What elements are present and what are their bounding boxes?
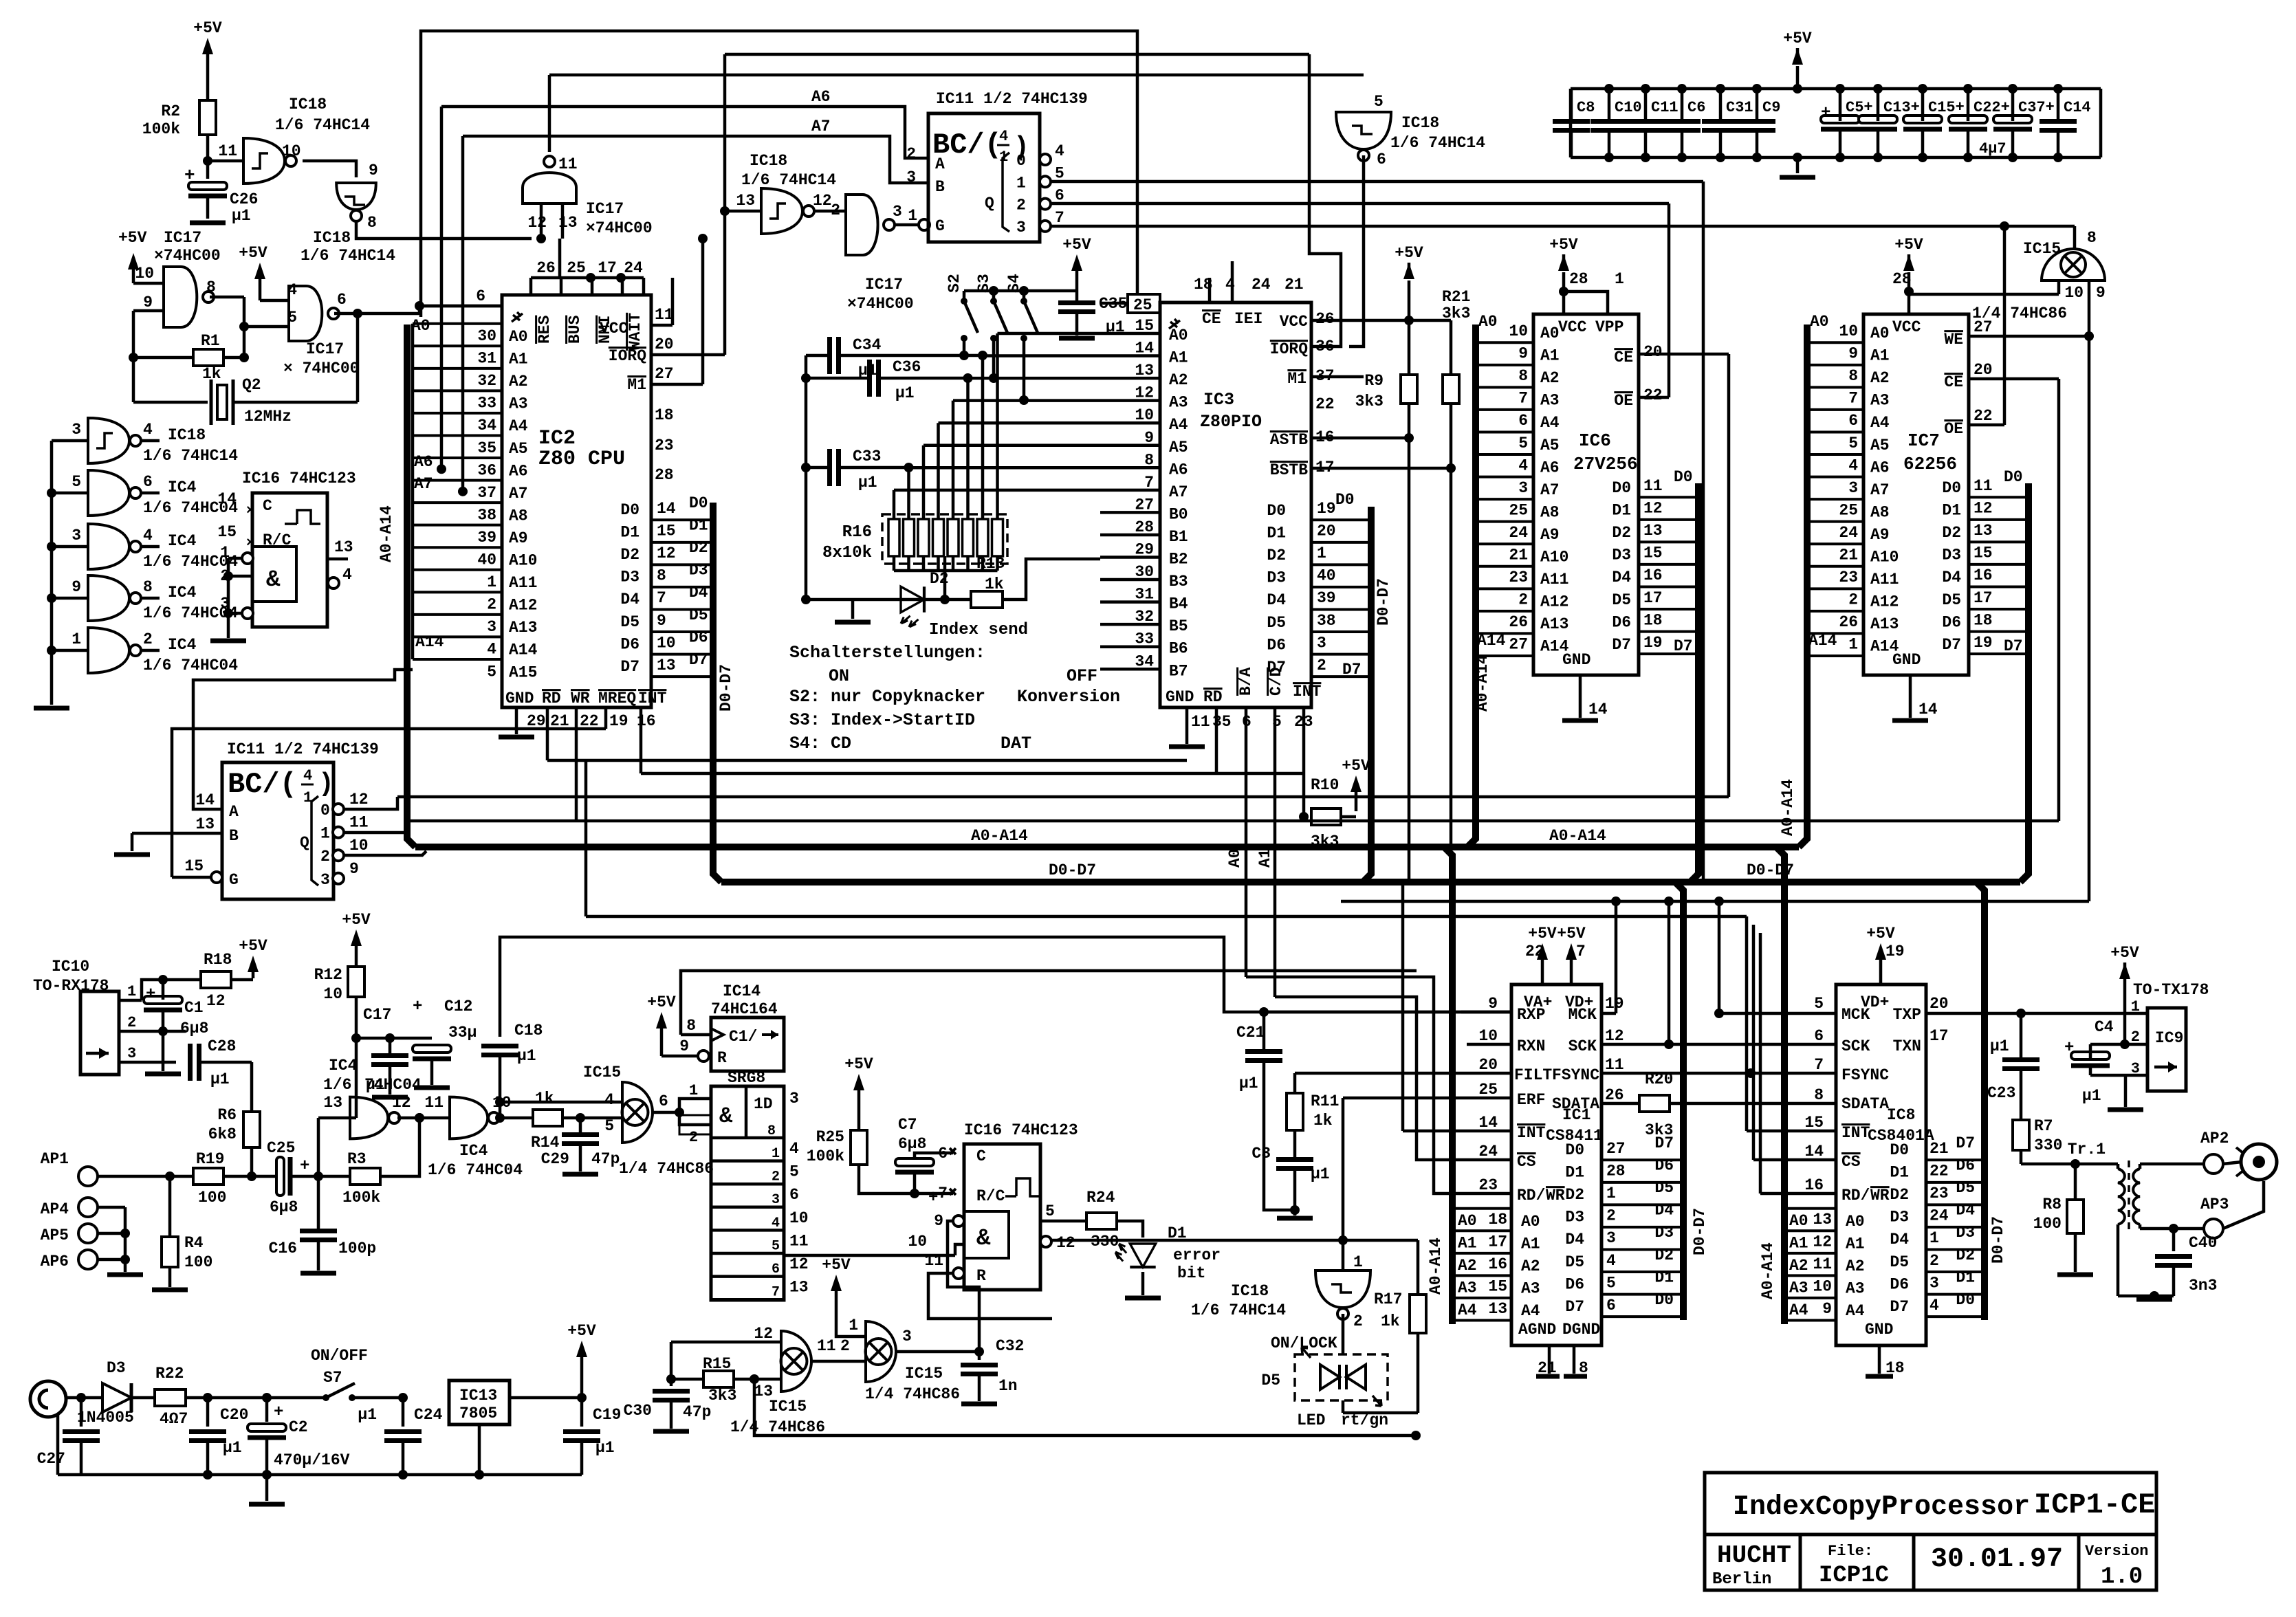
svg-text:11: 11	[349, 814, 369, 832]
svg-text:D2: D2	[1956, 1246, 1975, 1264]
svg-text:OE: OE	[1944, 420, 1963, 438]
svg-text:18: 18	[1974, 611, 1993, 629]
svg-text:20: 20	[1974, 361, 1993, 379]
svg-text:17: 17	[1488, 1233, 1507, 1251]
svg-text:+5V: +5V	[567, 1322, 596, 1340]
svg-text:A8: A8	[509, 507, 528, 525]
PIO pin 25 box	[1100, 294, 1160, 314]
svg-text:8: 8	[2087, 229, 2097, 247]
IC6 GND pin 14	[1562, 651, 1608, 720]
svg-text:12: 12	[392, 1094, 411, 1112]
svg-text:1/4 74HC86: 1/4 74HC86	[730, 1418, 825, 1436]
PIO pencil mark	[1169, 319, 1180, 329]
svg-text:CE: CE	[1944, 373, 1963, 391]
ON/LOCK label	[1271, 1334, 1337, 1352]
svg-text:1: 1	[127, 983, 136, 1000]
svg-text:TO-TX178: TO-TX178	[2133, 981, 2209, 999]
svg-text:3: 3	[2131, 1060, 2140, 1077]
svg-text:11: 11	[1974, 477, 1993, 495]
svg-text:+5V: +5V	[1342, 757, 1370, 775]
svg-text:100k: 100k	[342, 1189, 380, 1207]
svg-text:C10: C10	[1615, 99, 1642, 116]
resistor R3 100k	[318, 1113, 424, 1207]
svg-text:16: 16	[1488, 1255, 1507, 1273]
svg-text:4: 4	[143, 421, 153, 439]
svg-text:23: 23	[1478, 1176, 1498, 1194]
XOR IC15 1/4 74HC86 pins 8,10 -> 9	[1909, 229, 2106, 901]
svg-text:Q: Q	[300, 834, 309, 852]
svg-text:27V256: 27V256	[1573, 454, 1638, 474]
svg-text:12: 12	[754, 1325, 773, 1343]
svg-text:D0-D7: D0-D7	[717, 664, 735, 712]
svg-text:+5V: +5V	[1557, 925, 1586, 943]
svg-text:15: 15	[1804, 1114, 1824, 1132]
svg-text:A7: A7	[414, 475, 433, 493]
svg-text:AP1: AP1	[41, 1150, 69, 1168]
svg-text:C24: C24	[414, 1406, 443, 1424]
svg-text:A4: A4	[1521, 1302, 1540, 1320]
svg-text:R19: R19	[196, 1150, 224, 1168]
svg-text:14: 14	[1478, 1114, 1498, 1132]
svg-text:4: 4	[604, 1091, 614, 1109]
title version	[2085, 1543, 2148, 1590]
bus tags A0 A6 A7 A14 at Z80	[411, 317, 444, 651]
svg-text:C37+: C37+	[2018, 99, 2055, 116]
svg-text:D5: D5	[1942, 591, 1961, 609]
capacitor C37	[1993, 84, 2055, 162]
capacitor C24 u1	[358, 1398, 442, 1479]
resistor R15 3k3	[666, 1355, 781, 1405]
svg-text:+: +	[300, 1157, 309, 1176]
IC3 Z80PIO label	[1200, 390, 1262, 432]
capacitor C4 u1	[2064, 1018, 2147, 1105]
bus IC1 A branch	[1444, 847, 1452, 1324]
svg-text:IC15: IC15	[769, 1398, 807, 1416]
XOR IC15 pins 12,13 -> 11	[730, 1325, 866, 1436]
inverter IC18 pins 5-6 (down)	[1336, 93, 1485, 168]
svg-text:CE: CE	[1202, 310, 1221, 328]
svg-text:+5V: +5V	[2110, 944, 2139, 962]
svg-text:D1: D1	[689, 517, 708, 535]
svg-text:D3: D3	[1267, 569, 1286, 587]
svg-text:27: 27	[1606, 1140, 1626, 1158]
svg-text:AP6: AP6	[41, 1253, 69, 1270]
svg-text:A1: A1	[1458, 1235, 1477, 1253]
svg-text:5: 5	[1045, 1202, 1055, 1220]
svg-text:8: 8	[206, 278, 216, 296]
svg-text:ICP1-CE: ICP1-CE	[2034, 1488, 2155, 1521]
svg-text:1: 1	[1353, 1253, 1363, 1271]
svg-text:µ1: µ1	[2082, 1087, 2101, 1105]
svg-text:D1: D1	[1267, 525, 1286, 542]
NAND IC17 pins 12,13 -> 11 (up)	[523, 155, 653, 243]
wire R13 to PIO B ladder	[1003, 559, 1100, 599]
svg-text:14: 14	[657, 500, 676, 518]
svg-text:11: 11	[1643, 477, 1663, 495]
svg-text:IC4: IC4	[168, 636, 197, 654]
svg-text:+5V: +5V	[1395, 244, 1423, 262]
IC7 GND pin 14	[1892, 651, 1938, 720]
svg-text:D0-D7: D0-D7	[1049, 861, 1096, 879]
wire IC14 pin8 from top	[681, 971, 1417, 1035]
svg-text:INT: INT	[1517, 1124, 1546, 1142]
svg-text:A14: A14	[415, 633, 444, 651]
svg-text:10: 10	[1478, 1027, 1498, 1045]
svg-text:R2: R2	[161, 102, 180, 120]
decoder IC11 1/2 74HC139 lower	[184, 740, 378, 899]
svg-text:A1: A1	[1789, 1235, 1808, 1253]
svg-text:3: 3	[772, 1192, 780, 1208]
svg-text:IC15: IC15	[2023, 240, 2061, 258]
svg-text:C34: C34	[853, 336, 882, 354]
svg-text:9: 9	[1488, 995, 1498, 1013]
svg-text:IC6: IC6	[1579, 430, 1611, 451]
svg-text:22: 22	[1929, 1163, 1949, 1180]
svg-text:5: 5	[604, 1117, 614, 1135]
svg-text:IC15: IC15	[905, 1365, 943, 1383]
svg-text:1: 1	[1615, 270, 1624, 288]
IC1 name label	[1546, 1106, 1603, 1145]
svg-text:+5V: +5V	[239, 937, 267, 955]
IC7 address ladder	[1807, 322, 1899, 656]
svg-text:B2: B2	[1169, 551, 1188, 569]
svg-text:62256: 62256	[1903, 454, 1957, 474]
inverter IC18 1/6 74HC14 pins 9-8 (down)	[300, 162, 395, 265]
ground IC11 lower B	[114, 852, 150, 857]
svg-text:C/D: C/D	[1267, 668, 1285, 696]
svg-text:4Ω7: 4Ω7	[160, 1410, 188, 1428]
svg-text:R4: R4	[184, 1234, 204, 1252]
shift register IC14 74HC164 control box	[711, 982, 784, 1071]
svg-text:18: 18	[1488, 1211, 1507, 1229]
svg-text:26: 26	[1839, 613, 1858, 631]
capacitor C17 u1	[356, 1006, 408, 1097]
svg-text:TO-RX178: TO-RX178	[33, 977, 109, 995]
XOR1 output to IC14 pins 1,2	[653, 1082, 711, 1146]
capacitor C22	[1949, 84, 2010, 162]
svg-text:D6: D6	[620, 635, 639, 653]
svg-text:24: 24	[1251, 276, 1271, 294]
+5V after R18	[231, 937, 267, 980]
capacitor C35 u1	[1058, 295, 1127, 338]
svg-text:Z80PIO: Z80PIO	[1200, 412, 1262, 432]
svg-text:7: 7	[938, 1185, 948, 1202]
svg-text:12: 12	[789, 1255, 809, 1273]
svg-text:&: &	[266, 567, 281, 593]
svg-text:A2: A2	[1521, 1257, 1540, 1275]
title text IndexCopyProcessor ICP1-CE	[1733, 1488, 2155, 1523]
switch S7 ON/OFF	[311, 1347, 408, 1402]
svg-text:10: 10	[282, 142, 301, 160]
svg-text:A10: A10	[1870, 549, 1899, 566]
svg-text:A0-A14: A0-A14	[971, 827, 1028, 845]
SRAM IC7 62256 box	[1863, 314, 1969, 675]
svg-text:D3: D3	[689, 562, 708, 580]
svg-text:C7: C7	[898, 1116, 917, 1134]
svg-text:B0: B0	[1169, 505, 1188, 523]
svg-text:10: 10	[657, 634, 676, 652]
svg-text:A0-A14: A0-A14	[1427, 1237, 1445, 1295]
svg-text:R: R	[976, 1267, 986, 1285]
svg-text:A4: A4	[1846, 1302, 1865, 1320]
A7 wire to IC11.B	[463, 118, 928, 183]
svg-text:Konversion: Konversion	[1017, 687, 1120, 707]
resistor R10 3k3 to +5V	[1299, 757, 1370, 850]
svg-text:27: 27	[1509, 636, 1528, 654]
svg-text:IC4: IC4	[329, 1057, 358, 1075]
svg-text:10: 10	[2064, 284, 2084, 302]
svg-text:D2: D2	[1267, 547, 1286, 564]
svg-text:IC18: IC18	[313, 229, 351, 247]
IC14 clock pin C1/	[681, 1017, 778, 1046]
svg-text:IC13: IC13	[459, 1387, 497, 1405]
svg-text:A4: A4	[509, 417, 528, 435]
switch S3	[975, 274, 1007, 383]
svg-text:OFF: OFF	[1067, 666, 1097, 686]
bus IC1 D label	[1691, 1208, 1709, 1255]
svg-text:G: G	[935, 217, 945, 235]
svg-text:error: error	[1173, 1246, 1221, 1264]
svg-text:D4: D4	[1565, 1231, 1584, 1248]
svg-text:6µ8: 6µ8	[180, 1020, 208, 1037]
svg-text:2: 2	[1848, 591, 1858, 609]
svg-text:31: 31	[477, 350, 496, 368]
svg-text:23: 23	[655, 437, 674, 454]
svg-text:9: 9	[2096, 284, 2106, 302]
svg-text:A13: A13	[1540, 615, 1568, 633]
resistor R7 330	[2013, 1117, 2118, 1169]
svg-text:D0-D7: D0-D7	[1989, 1216, 2007, 1264]
svg-text:R3: R3	[347, 1150, 367, 1168]
svg-text:5: 5	[1848, 434, 1858, 452]
wire NAND3 out to IC11 G	[895, 219, 930, 230]
+5V arrow at C35	[1062, 236, 1091, 302]
PIO right pins	[1270, 54, 1456, 479]
wire XOR2 pin12 loop	[671, 1342, 781, 1379]
svg-text:RXP: RXP	[1517, 1006, 1545, 1024]
svg-text:20: 20	[1929, 995, 1949, 1013]
ground cap bank	[1780, 153, 1815, 177]
svg-text:C20: C20	[220, 1406, 248, 1424]
svg-text:C26: C26	[230, 190, 258, 208]
capacitor C26 u1	[184, 165, 258, 225]
capacitor C1 6u8	[144, 975, 208, 1037]
svg-text:A4: A4	[1540, 414, 1560, 432]
svg-text:12: 12	[657, 544, 676, 562]
svg-text:D3: D3	[620, 569, 639, 586]
svg-text:C: C	[263, 497, 272, 515]
svg-text:1.0: 1.0	[2101, 1564, 2143, 1590]
svg-text:D7: D7	[689, 651, 708, 669]
svg-text:A7: A7	[811, 118, 831, 135]
bus D0-D7 label vertical at Z80	[717, 664, 735, 712]
svg-text:IC16 74HC123: IC16 74HC123	[964, 1121, 1078, 1139]
svg-text:6: 6	[772, 1262, 780, 1277]
svg-text:A12: A12	[1870, 593, 1899, 611]
svg-text:A5: A5	[1870, 437, 1890, 454]
svg-text:26: 26	[1509, 613, 1528, 631]
svg-text:9: 9	[349, 860, 359, 878]
bus label D0-D7 left	[1049, 861, 1096, 879]
svg-text:A0: A0	[1226, 848, 1244, 868]
bus IC1 D branch	[1675, 882, 1683, 1320]
capacitor C28 u1	[190, 1037, 252, 1088]
svg-text:6: 6	[337, 291, 347, 309]
inverter IC4 1/6 74HC04 pins 5-6	[52, 470, 238, 517]
IC8 D ladder	[1890, 1134, 1985, 1317]
IC9 arrow	[2154, 1061, 2177, 1072]
wire C18 to XOR pin4	[495, 1097, 622, 1107]
svg-text:IORQ: IORQ	[1270, 340, 1308, 358]
bus IC8 D branch	[1976, 882, 1985, 1320]
svg-text:A12: A12	[509, 597, 537, 615]
svg-text:ON: ON	[829, 666, 849, 686]
svg-text:4: 4	[1848, 456, 1858, 474]
svg-text:4µ7: 4µ7	[1979, 140, 2007, 157]
svg-text:4: 4	[1929, 1297, 1939, 1314]
ground for IC16 pin 3	[210, 613, 246, 641]
svg-text:2: 2	[1353, 1312, 1363, 1330]
svg-text:A0: A0	[1521, 1213, 1540, 1231]
resistor network R16 8x10k dashed box	[822, 514, 1007, 564]
svg-text:D1: D1	[1942, 502, 1961, 520]
Z80 pencil mark	[512, 312, 523, 322]
bus IC6 D vertical	[1690, 483, 1698, 882]
svg-text:5: 5	[772, 1238, 780, 1254]
bus A0-A14 horizontal	[415, 844, 1799, 850]
ground for inverter column	[34, 691, 69, 708]
svg-text:AP4: AP4	[41, 1200, 69, 1218]
svg-text:IC18: IC18	[750, 152, 787, 170]
svg-text:A0: A0	[1458, 1212, 1477, 1230]
svg-text:22: 22	[1974, 407, 1993, 425]
IC7 VCC	[1892, 270, 1921, 336]
inverter IC4 pins 13-12	[318, 1057, 422, 1176]
resistor R12 10	[314, 911, 371, 1043]
svg-text:Z80 CPU: Z80 CPU	[538, 448, 625, 471]
svg-text:0: 0	[1016, 152, 1026, 170]
svg-text:IC18: IC18	[1231, 1282, 1269, 1300]
svg-text:S2: nur Copyknacker: S2: nur Copyknacker	[789, 687, 985, 707]
decoder IC11 1/2 74HC139 upper	[906, 90, 1088, 242]
IC10 pin wires	[119, 983, 186, 1062]
capacitor C25 6u8	[223, 1139, 323, 1216]
svg-text:R21: R21	[1442, 288, 1470, 306]
wire y1450 A1 line	[1275, 997, 1511, 1160]
svg-text:6µ8: 6µ8	[898, 1135, 926, 1153]
svg-text:D0: D0	[689, 494, 708, 512]
svg-text:100: 100	[198, 1189, 226, 1207]
bus PIO D vertical	[1363, 507, 1371, 882]
svg-text:A13: A13	[1870, 615, 1899, 633]
svg-text:3: 3	[1317, 634, 1326, 652]
svg-text:1: 1	[689, 1082, 698, 1099]
svg-text:B: B	[935, 178, 945, 196]
svg-text:C33: C33	[853, 448, 881, 465]
svg-text:C6: C6	[1687, 99, 1705, 116]
svg-text:+5V: +5V	[1894, 236, 1923, 254]
svg-text:IC11 1/2 74HC139: IC11 1/2 74HC139	[227, 740, 379, 758]
svg-text:×: ×	[246, 503, 254, 519]
svg-text:9: 9	[143, 294, 153, 311]
capacitor C7 6u8	[895, 1116, 953, 1207]
svg-text:D7: D7	[1342, 661, 1362, 679]
svg-text:5: 5	[72, 473, 81, 491]
capacitor C27	[37, 1398, 100, 1475]
bus IC6 A vertical	[1467, 324, 1476, 847]
EPROM IC6 27V256 box	[1533, 314, 1639, 675]
svg-text:B6: B6	[1169, 640, 1188, 658]
svg-text:D2: D2	[689, 539, 708, 557]
svg-text:1/6: 1/6	[323, 1076, 351, 1094]
svg-text:HUCHT: HUCHT	[1717, 1541, 1791, 1570]
NAND IC17 pins 2,1 -> 3	[814, 195, 917, 313]
svg-text:C31: C31	[1726, 99, 1753, 116]
svg-text:IC14: IC14	[723, 982, 761, 1000]
svg-text:A14: A14	[1477, 632, 1506, 650]
switch top rail to +5V	[964, 286, 1077, 296]
resistor R17 1k	[1374, 1240, 1426, 1413]
svg-text:20: 20	[1643, 343, 1663, 361]
capacitor C32 1n	[961, 1337, 1024, 1404]
svg-text:D0: D0	[1335, 491, 1355, 509]
svg-text:A0: A0	[1870, 324, 1890, 342]
svg-text:S2: S2	[945, 274, 963, 293]
svg-text:12: 12	[527, 214, 547, 232]
svg-text:C3: C3	[1251, 1145, 1271, 1163]
svg-text:5: 5	[789, 1163, 799, 1181]
regulator IC13 7805	[449, 1380, 582, 1479]
svg-text:D3: D3	[1942, 547, 1961, 564]
svg-text:4: 4	[999, 128, 1008, 145]
capacitor C31	[1702, 84, 1753, 162]
svg-text:47p: 47p	[683, 1403, 711, 1421]
svg-text:IC18: IC18	[289, 96, 327, 113]
capacitor C14	[2040, 84, 2091, 162]
svg-text:20: 20	[1317, 522, 1336, 540]
svg-text:19: 19	[1643, 634, 1663, 652]
svg-text:9: 9	[934, 1212, 943, 1230]
svg-text:16: 16	[1974, 566, 1993, 584]
svg-text:IC10: IC10	[52, 958, 89, 976]
svg-text:A: A	[935, 155, 945, 173]
svg-text:D7: D7	[1674, 637, 1693, 655]
svg-text:3k3: 3k3	[1442, 305, 1470, 322]
IC1 grounds	[1536, 1374, 1587, 1379]
switch S4	[1005, 274, 1038, 405]
svg-text:5: 5	[1055, 164, 1064, 182]
svg-text:A15: A15	[509, 663, 537, 681]
svg-text:R22: R22	[155, 1365, 184, 1383]
svg-text:D6: D6	[1956, 1157, 1975, 1175]
svg-text:7: 7	[772, 1285, 780, 1301]
resistor R20 3k3	[1639, 1070, 1836, 1139]
svg-text:D0: D0	[620, 501, 639, 519]
svg-text:16: 16	[1643, 566, 1663, 584]
svg-text:D3: D3	[1956, 1224, 1975, 1242]
svg-text:19: 19	[1885, 943, 1905, 960]
svg-text:BC/(: BC/(	[228, 768, 297, 801]
resistor R8 100	[2033, 1164, 2093, 1275]
svg-text:IC4: IC4	[168, 478, 197, 496]
svg-text:C32: C32	[996, 1337, 1024, 1355]
svg-text:4: 4	[789, 1140, 799, 1158]
IC11 outputs right wires	[1051, 181, 2075, 249]
bus IC7 D vertical	[2020, 483, 2029, 882]
svg-text:1: 1	[72, 630, 81, 648]
svg-text:D1: D1	[1565, 1164, 1584, 1182]
monoflop IC16 74HC123 first	[217, 470, 356, 627]
